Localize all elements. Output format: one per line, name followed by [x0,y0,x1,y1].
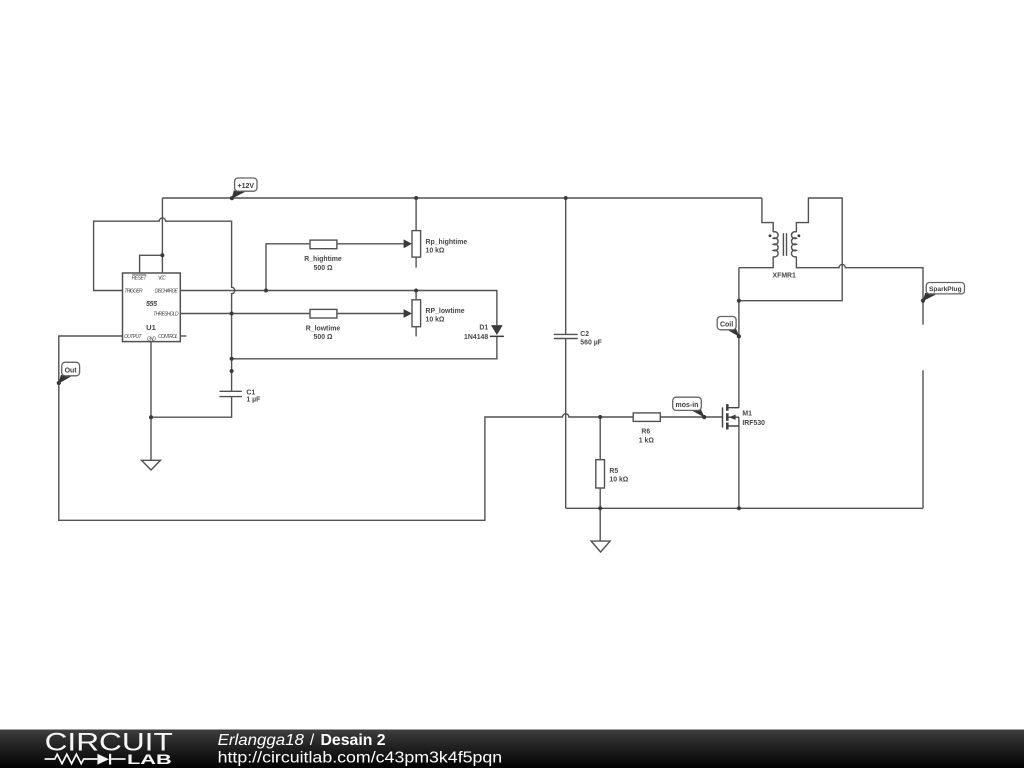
svg-text:555: 555 [146,301,157,308]
pin CONTROL stub [180,335,186,337]
wire secondary bottom to sparkplug [796,257,923,325]
wire sparkplug lower electrode [922,370,924,508]
svg-text:Desain 2: Desain 2 [321,732,386,749]
wire threshold line [180,313,404,315]
wire D1 bottom to node [232,336,497,359]
potentiometer RP_lowtime body [412,300,421,327]
svg-text:U1: U1 [146,323,156,332]
capacitor C1 [219,391,242,396]
wire output / mos-in run [59,336,723,520]
svg-text:mos-in: mos-in [676,402,699,409]
ground symbol (R5) [591,541,610,552]
node flag Out [57,362,80,385]
svg-text:Out: Out [65,367,78,374]
op-amp 555 box U1 [123,273,181,342]
wire R5 leads [599,417,601,541]
node flag +12V [230,178,257,200]
mosfet body arrow [729,415,736,420]
wire C1 leads [151,397,232,418]
wire transformer primary bottom [739,257,773,268]
555 pin labels [124,276,179,343]
node flag Coil [717,317,741,339]
diode D1 [491,325,503,335]
wire secondary top path [739,198,842,301]
svg-text:OUTPUT: OUTPUT [124,334,142,340]
ground symbol (555) [142,460,161,470]
transformer XFMR1 secondary winding [791,232,796,257]
svg-text:1 µF: 1 µF [246,397,260,404]
resistor R6 body [633,413,660,422]
svg-text:Coil: Coil [720,322,733,329]
svg-text:500 Ω: 500 Ω [314,265,333,272]
svg-text:Rp_hightime: Rp_hightime [426,239,468,246]
capacitor C2 [554,334,578,338]
svg-text:XFMR1: XFMR1 [773,273,797,280]
transformer phase dots [769,234,772,237]
wire discharge line [180,291,497,326]
node flag mos-in [673,397,707,419]
arrow into RP_lowtime [404,309,412,318]
wire 555 GND down [150,342,152,461]
svg-text:THRESHOLD: THRESHOLD [153,311,179,317]
svg-text:VCC: VCC [158,276,166,282]
svg-text:M1: M1 [742,411,752,418]
svg-text:DISCHARGE: DISCHARGE [155,289,179,295]
resistor R_lowtime body [310,309,337,318]
transformer XFMR1 primary winding [773,232,778,257]
svg-text:R_hightime: R_hightime [304,256,342,263]
transformer XFMR1 core [783,233,786,256]
svg-text:Erlangga18: Erlangga18 [218,732,305,749]
wire R_hightime riser [266,244,404,291]
footer bar [0,729,1024,768]
svg-text:C1: C1 [246,389,255,396]
svg-text:+12V: +12V [238,183,255,190]
transistor M1 (MOSFET) [723,404,739,429]
svg-text:/: / [310,732,315,749]
wire RESET jog [140,255,163,273]
svg-text:RP_lowtime: RP_lowtime [426,308,465,315]
arrow into Rp_hightime [404,239,412,248]
svg-text:R6: R6 [641,429,650,436]
CircuitLab logo resistor-diode glyph [45,754,126,765]
wire C2 vertical [565,198,567,508]
resistor R_hightime body [310,240,337,249]
pin RESET overline [132,274,146,276]
svg-text:C2: C2 [580,331,589,338]
wire trigger-threshold net [94,218,235,391]
potentiometer Rp_hightime body [412,231,421,258]
wire RP_lowtime leads [415,291,417,337]
svg-text:IRF530: IRF530 [742,420,765,427]
wire coil/drain vertical [738,268,740,408]
wire mosfet source down [738,417,740,508]
svg-text:CONTROL: CONTROL [158,334,178,340]
node flag SparkPlug [921,283,965,303]
svg-text:GND: GND [147,337,156,343]
svg-text:LAB: LAB [127,751,172,767]
wire transformer primary top [762,198,773,232]
wire +12V top rail [162,197,762,199]
svg-text:1 kΩ: 1 kΩ [639,438,655,445]
wire Rp_hightime leads [415,198,417,268]
svg-text:500 Ω: 500 Ω [314,334,333,341]
component labels [246,239,796,484]
svg-text:http://circuitlab.com/c43pm3k4: http://circuitlab.com/c43pm3k4f5pqn [218,750,503,767]
svg-text:SparkPlug: SparkPlug [929,286,962,293]
svg-text:10 kΩ: 10 kΩ [426,248,445,255]
svg-text:TRIGGER: TRIGGER [124,289,143,295]
svg-text:R_lowtime: R_lowtime [306,325,341,332]
svg-text:1N4148: 1N4148 [464,334,488,341]
svg-text:D1: D1 [479,325,488,332]
wire VCC riser [161,198,163,273]
svg-text:10 kΩ: 10 kΩ [609,477,628,484]
svg-text:560 µF: 560 µF [580,340,602,347]
svg-text:R5: R5 [609,468,618,475]
wire bottom rail [566,507,923,509]
junction dots [414,196,418,200]
resistor R5 body [596,460,605,488]
svg-text:10 kΩ: 10 kΩ [426,317,445,324]
svg-text:RESET: RESET [132,276,148,282]
